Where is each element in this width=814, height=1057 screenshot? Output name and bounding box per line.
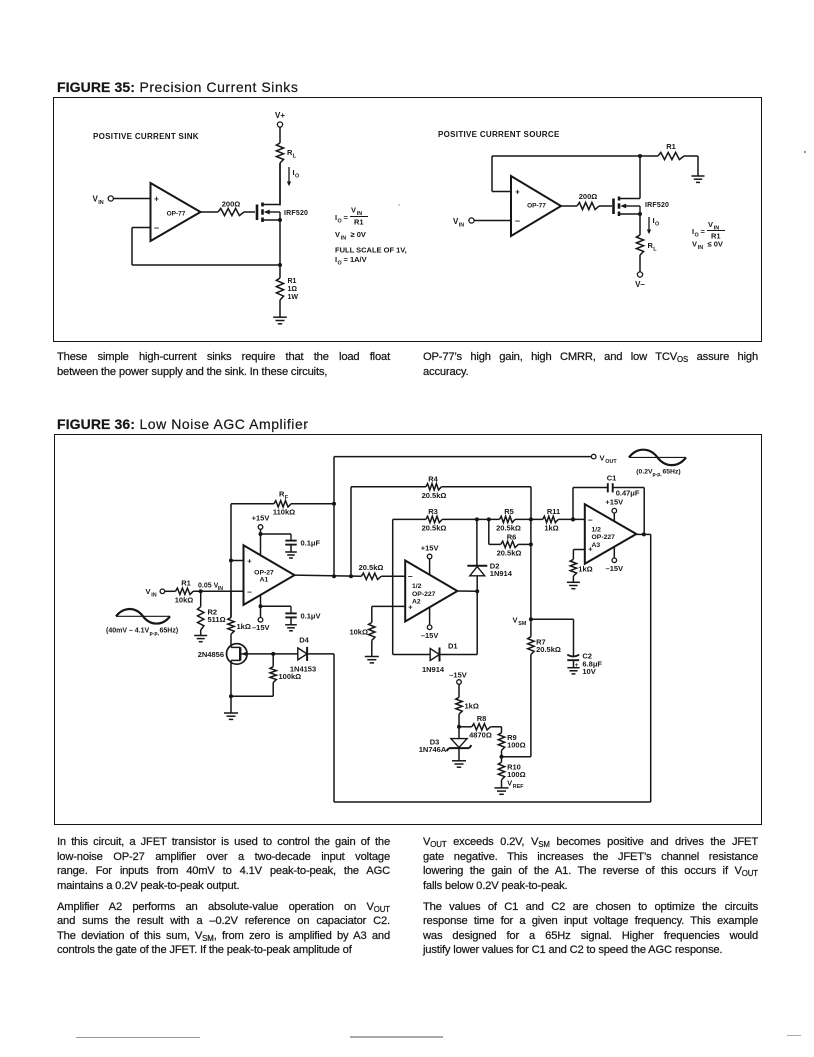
resistor R2 511 [198, 591, 226, 630]
resistor R1 10k [169, 579, 193, 605]
svg-text:OUT: OUT [605, 459, 617, 465]
svg-text:p-p,: p-p, [653, 472, 663, 478]
resistor R4 20.5k [351, 474, 531, 500]
svg-text:110kΩ: 110kΩ [273, 508, 295, 517]
svg-text:(0.2V: (0.2V [636, 469, 653, 476]
svg-text:IN: IN [98, 200, 103, 206]
wire node up chain 1k [230, 591, 232, 617]
capacitor C2 6.8uF [531, 619, 603, 676]
svg-text:65Hz): 65Hz) [663, 469, 681, 476]
op-amp A2 OP-227 [405, 561, 457, 622]
wire A3 output to loop [636, 532, 650, 536]
svg-text:=: = [344, 213, 349, 222]
svg-text:100kΩ: 100kΩ [279, 672, 302, 681]
svg-text:OP-227: OP-227 [592, 534, 616, 541]
svg-text:20.5kΩ: 20.5kΩ [497, 549, 522, 558]
node minus15V A1 [252, 595, 270, 632]
wire source down to R1 [278, 220, 282, 278]
svg-text:(40mV – 4.1V: (40mV – 4.1V [106, 628, 150, 635]
svg-text:–15V: –15V [606, 564, 624, 573]
svg-text:2N4856: 2N4856 [198, 650, 224, 659]
svg-text:OP-227: OP-227 [412, 591, 436, 598]
svg-text:SM: SM [518, 621, 527, 627]
svg-text:POSITIVE CURRENT SINK: POSITIVE CURRENT SINK [93, 132, 199, 141]
svg-text:100Ω: 100Ω [507, 740, 526, 749]
svg-text:–: – [588, 514, 593, 524]
resistor R1 top [640, 142, 698, 160]
label output amplitude [636, 469, 680, 479]
transistor Q2 IRF520 [614, 197, 670, 217]
node VSM [513, 615, 533, 627]
wire input node to minus [193, 590, 243, 592]
resistor 1k D3 chain [456, 697, 479, 738]
caption label POSITIVE CURRENT SINK [93, 132, 199, 141]
resistor R11 1k [543, 507, 585, 533]
capacitor 0.1uF A1 top [261, 534, 321, 558]
svg-text:–: – [154, 223, 159, 233]
output sine symbol [629, 450, 686, 465]
svg-text:R1: R1 [666, 142, 676, 151]
svg-text:1N914: 1N914 [490, 569, 513, 578]
svg-text:+15V: +15V [605, 498, 623, 507]
svg-text:L: L [653, 247, 657, 253]
svg-text:1N746A: 1N746A [419, 745, 447, 754]
svg-text:p-p,: p-p, [150, 631, 160, 637]
wire R7 down to R9 node [502, 655, 531, 757]
svg-text:+: + [515, 188, 520, 197]
svg-text:1N914: 1N914 [422, 665, 445, 674]
svg-text:≤ 0V: ≤ 0V [708, 240, 723, 249]
node VIN input left [93, 195, 151, 207]
node minus15V D3 chain [449, 670, 467, 697]
svg-text:A2: A2 [412, 599, 421, 606]
svg-text:D1: D1 [448, 641, 458, 650]
capacitor C1 0.47uF [573, 473, 644, 534]
wire R4 riser [350, 487, 352, 577]
current IO arrow right [647, 216, 659, 234]
svg-text:–: – [247, 586, 252, 596]
note FULL SCALE [335, 246, 407, 255]
wire R5 node down to VSM [530, 519, 532, 636]
svg-text:0.1μF: 0.1μF [301, 539, 321, 548]
node plus15V A2 [421, 543, 439, 575]
svg-text:FULL SCALE OF 1V,: FULL SCALE OF 1V, [335, 246, 407, 255]
svg-text:≥ 0V: ≥ 0V [351, 230, 366, 239]
scan artifact lines bottom [76, 1036, 801, 1038]
svg-text:10kΩ: 10kΩ [349, 628, 368, 637]
svg-text:=: = [701, 227, 706, 236]
svg-text:–: – [408, 571, 413, 581]
svg-text:R1: R1 [288, 278, 297, 285]
svg-text:V: V [513, 615, 518, 624]
formula IO equals VIN over R1 right [692, 220, 725, 241]
wire loop bottom [334, 801, 651, 803]
ground below R2 [194, 630, 207, 642]
resistor R10 100 VREF [495, 762, 526, 794]
svg-text:65Hz): 65Hz) [160, 628, 179, 635]
ground right of R1 [692, 176, 705, 182]
label input amplitude [106, 628, 178, 638]
svg-text:20.5kΩ: 20.5kΩ [359, 563, 384, 572]
svg-text:+: + [154, 195, 159, 204]
svg-text:R4: R4 [428, 474, 438, 483]
formula IO 1A per V [335, 255, 367, 267]
svg-text:IRF520: IRF520 [284, 210, 308, 217]
svg-text:10kΩ: 10kΩ [175, 596, 194, 605]
node VIN input right [453, 217, 511, 229]
svg-text:IN: IN [698, 245, 703, 251]
svg-text:1kΩ: 1kΩ [544, 524, 558, 533]
wire A2 output [457, 589, 479, 593]
svg-text:IRF520: IRF520 [645, 202, 669, 209]
resistor 20.5k A1 to A2 [359, 563, 406, 580]
wire VOUT riser [332, 457, 336, 577]
wire source down [639, 214, 641, 235]
resistor RL right [636, 235, 657, 255]
resistor 200ohm [218, 200, 255, 216]
svg-text:–15V: –15V [421, 631, 439, 640]
svg-text:O: O [338, 219, 342, 225]
op-amp U1 OP-77 [151, 183, 201, 241]
svg-text:O: O [338, 261, 342, 267]
wire feedback plus loop [492, 154, 642, 192]
svg-text:A1: A1 [260, 577, 269, 584]
svg-text:POSITIVE CURRENT SOURCE: POSITIVE CURRENT SOURCE [438, 130, 560, 139]
svg-text:20.5kΩ: 20.5kΩ [496, 524, 521, 533]
wire 100k to source join [229, 682, 273, 698]
resistor 1k to JFET [228, 618, 251, 635]
formula IO equals VIN over R1 [335, 206, 368, 227]
resistor 200ohm right [577, 192, 612, 210]
resistor R7 20.5k [528, 637, 561, 655]
svg-text:OP-77: OP-77 [527, 203, 546, 210]
resistor R6 20.5k [489, 519, 533, 557]
diode D4 1N4153 [290, 636, 316, 674]
wire R11 to A3 minus [571, 517, 575, 521]
svg-text:200Ω: 200Ω [579, 192, 598, 201]
svg-text:0.1μV: 0.1μV [301, 611, 321, 620]
svg-text:R1: R1 [181, 579, 191, 588]
svg-text:V: V [600, 454, 605, 463]
node VIN terminal fig36 [146, 587, 170, 599]
svg-text:REF: REF [513, 784, 524, 790]
wire feedback minus loop [132, 228, 280, 266]
diode D2 1N914 [467, 519, 512, 591]
wire RL to drain [279, 163, 281, 206]
svg-text:O: O [655, 222, 659, 228]
wire A2 out to D1 row [476, 591, 478, 654]
svg-text:IN: IN [459, 223, 464, 229]
node 0.05VIN [198, 582, 223, 593]
svg-text:V: V [692, 240, 697, 249]
caption label POSITIVE CURRENT SOURCE [438, 130, 560, 139]
svg-text:1/2: 1/2 [592, 526, 602, 533]
svg-text:IN: IN [151, 593, 156, 599]
svg-text:V: V [146, 587, 151, 596]
capacitor 0.1uV A1 bottom [261, 606, 321, 631]
svg-text:1Ω: 1Ω [288, 286, 298, 293]
svg-text:20.5kΩ: 20.5kΩ [422, 491, 447, 500]
resistor R5 20.5k [496, 507, 543, 533]
svg-text:+: + [247, 557, 252, 566]
wire V+ to RL [279, 127, 281, 143]
svg-text:–: – [515, 216, 520, 226]
formula VIN le 0V [692, 240, 723, 252]
ground below JFET [224, 713, 238, 719]
node minus15V A2 [421, 607, 439, 640]
ground below R1 [273, 317, 287, 324]
formula VIN ge 0V [335, 230, 366, 242]
svg-text:C1: C1 [607, 473, 617, 482]
resistor 1k A3 plus [567, 550, 593, 589]
wire plus input vertical [229, 504, 244, 618]
svg-text:0.05 V: 0.05 V [198, 582, 219, 589]
svg-text:1kΩ: 1kΩ [465, 702, 479, 711]
node plus15V A1 [252, 514, 270, 556]
resistor R8 4870 [459, 714, 502, 740]
svg-text:O: O [695, 233, 699, 239]
resistor 10k A2 plus [349, 606, 405, 663]
wire drain up to feedback [639, 157, 641, 199]
node V+ terminal [275, 111, 285, 127]
svg-text:OP-77: OP-77 [167, 211, 186, 218]
svg-text:+15V: +15V [252, 514, 270, 523]
diode D3 zener 1N746A [419, 737, 472, 767]
svg-text:IN: IN [341, 236, 346, 242]
svg-text:A3: A3 [592, 542, 601, 549]
svg-text:R1: R1 [354, 218, 364, 227]
resistor R3 20.5k [393, 507, 500, 533]
svg-text:R6: R6 [507, 532, 517, 541]
svg-text:200Ω: 200Ω [222, 200, 241, 209]
svg-text:4870Ω: 4870Ω [469, 731, 492, 740]
node VOUT terminal [591, 454, 617, 466]
op-amp A1 OP-27 [244, 545, 295, 605]
svg-text:–15V: –15V [449, 670, 467, 679]
node minus15V A3 [606, 547, 624, 573]
current IO arrow [287, 167, 299, 186]
wire R4 to R3 node [530, 487, 532, 520]
svg-text:V: V [507, 779, 512, 788]
svg-text:10V: 10V [582, 667, 595, 676]
wire R3 riser [392, 519, 394, 654]
wire R1 to ground stub [697, 156, 699, 176]
svg-text:D4: D4 [299, 636, 309, 645]
node plus15V A3 [605, 498, 623, 522]
svg-text:V: V [708, 220, 713, 229]
wire R1 to ground [279, 300, 281, 317]
wire A1 output [295, 574, 362, 578]
svg-text:1/2: 1/2 [412, 583, 422, 590]
svg-text:V–: V– [635, 280, 645, 289]
source sine symbol input [116, 609, 170, 624]
svg-text:OP-27: OP-27 [254, 569, 274, 576]
svg-text:1kΩ: 1kΩ [237, 622, 251, 631]
svg-text:V: V [335, 230, 340, 239]
wire op-amp2 output [561, 205, 577, 207]
svg-text:V+: V+ [275, 111, 285, 120]
wire JFET gate to D4 [247, 652, 298, 656]
transistor Q3 2N4856 JFET [198, 644, 247, 665]
wire op-amp output [201, 211, 219, 213]
node V- terminal [635, 255, 645, 289]
resistor R1 1ohm [276, 278, 298, 301]
svg-text:20.5kΩ: 20.5kΩ [422, 524, 447, 533]
wire loop right vertical [650, 534, 652, 802]
svg-text:O: O [295, 174, 299, 180]
wire 1k to JFET drain [230, 634, 232, 647]
resistor R9 100 [498, 727, 525, 762]
svg-text:V: V [351, 206, 356, 215]
svg-text:20.5kΩ: 20.5kΩ [536, 645, 561, 654]
svg-text:+15V: +15V [421, 543, 439, 552]
wire VOUT top run [334, 456, 591, 458]
wire drain up to RL [279, 164, 281, 205]
svg-text:–15V: –15V [252, 623, 270, 632]
wire D4 to loop [307, 653, 334, 655]
svg-text:511Ω: 511Ω [208, 615, 226, 624]
resistor 100k gate [270, 654, 301, 683]
wire loop left vertical [333, 654, 335, 802]
svg-text:= 1A/V: = 1A/V [344, 255, 367, 264]
svg-text:1kΩ: 1kΩ [578, 565, 592, 574]
svg-text:100Ω: 100Ω [507, 770, 526, 779]
svg-text:R8: R8 [477, 714, 487, 723]
diode D1 1N914 [393, 641, 478, 674]
op-amp U2 OP-77 [511, 176, 561, 236]
resistor RL [276, 143, 296, 163]
svg-text:1W: 1W [288, 294, 299, 301]
transistor Q1 IRF520 [257, 203, 308, 223]
wire JFET source down [230, 660, 232, 713]
svg-text:R3: R3 [428, 507, 438, 516]
svg-text:0.47μF: 0.47μF [616, 488, 640, 497]
svg-text:L: L [293, 154, 297, 160]
op-amp A3 OP-227 [585, 504, 637, 564]
resistor RF 110k [231, 490, 334, 517]
